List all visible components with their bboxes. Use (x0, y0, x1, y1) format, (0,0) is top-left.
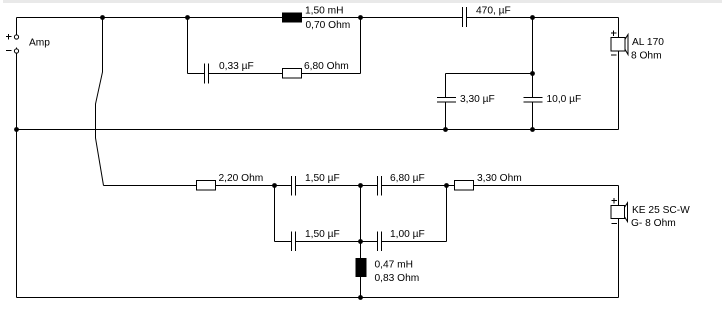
wire: KE25 top lead (618, 186, 620, 206)
capacitor C4 10,0µF plates (524, 97, 543, 99)
wire: between C 1,50 and C 6,80 (296, 185, 378, 187)
svg-text:G- 8 Ohm: G- 8 Ohm (631, 218, 676, 229)
wire: RC branch right riser (x=360) (360, 18, 362, 74)
node bottom branch x=446 (444, 183, 449, 188)
capacitor C3 3,30µF plates (437, 97, 456, 99)
node on top rail x=360 (358, 15, 363, 20)
wire: AL170 top lead (618, 18, 620, 38)
svg-text:6,80 Ohm: 6,80 Ohm (304, 61, 349, 72)
wire: amp plus lead (16, 18, 18, 35)
wire: mid drop node x=360 between branches (360, 186, 362, 242)
svg-text:2,20 Ohm: 2,20 Ohm (219, 173, 264, 184)
wire: L 0,47 bottom lead to bottom rail (360, 277, 362, 298)
wire: L 0,47 top lead (360, 242, 362, 259)
wire: C 10,0 bottom lead (532, 102, 534, 130)
resistor R1 6,80 Ohm body (283, 69, 302, 79)
wire: top rail left of C 470 (17, 17, 463, 19)
speaker SP1 plus sign (611, 31, 617, 37)
node on ground rail x=445 (443, 127, 448, 132)
speaker SP2 plus sign (612, 198, 618, 204)
wire: C 3,30 top lead (445, 74, 447, 98)
svg-text:3,30 Ohm: 3,30 Ohm (477, 173, 522, 184)
capacitor C6 6,80µF plates (377, 176, 379, 196)
svg-text:KE 25 SC-W: KE 25 SC-W (632, 205, 690, 216)
capacitor C1 470µF plates (462, 7, 464, 27)
inductor L2 0,47mH body (356, 258, 367, 277)
wire: C 3,30 bottom lead (445, 102, 447, 130)
wire: AL170 bottom lead to ground rail (618, 51, 620, 130)
wire: lower branch right of C 1,00 (382, 241, 447, 243)
wire: top rail right of C 470 (467, 17, 619, 19)
svg-text:0,70 Ohm: 0,70 Ohm (306, 20, 351, 31)
capacitor C5 1,50µF (upper) plates (291, 176, 293, 196)
wire: C 6,80 to R 3,30 (382, 185, 455, 187)
svg-text:3,30 µF: 3,30 µF (460, 94, 495, 105)
amp minus sign (6, 50, 12, 52)
svg-text:1,50 µF: 1,50 µF (305, 229, 340, 240)
window top edge strip (3, 0, 722, 3)
svg-text:Amp: Amp (29, 38, 50, 49)
wire: lower branch horizontal left of C 1,50 (275, 241, 292, 243)
amp plus sign (6, 34, 12, 40)
capacitor C8 1,00µF plates (377, 232, 379, 252)
node at (532,73.5) (530, 71, 535, 76)
wire: bottom branch feed to R 2,20 (104, 185, 197, 187)
svg-text:1,50 µF: 1,50 µF (305, 173, 340, 184)
resistor R3 3,30 Ohm body (455, 181, 474, 191)
resistor R2 2,20 Ohm body (197, 181, 216, 191)
svg-text:10,0 µF: 10,0 µF (547, 94, 582, 105)
svg-text:0,47 mH: 0,47 mH (375, 260, 414, 271)
wire: ground rail of top section (y=129) (17, 129, 619, 131)
node on top rail x=102 (100, 15, 105, 20)
speaker SP1 AL 170 box (611, 38, 625, 52)
node dots (14, 15, 535, 300)
wire: R 3,30 to speaker corner (474, 185, 619, 187)
wire: amp minus lead down to bottom-left corner (16, 53, 18, 298)
wire: horizontal y=73.5 between C 3,30 and C 10,0 (446, 73, 533, 75)
wire: lower branch between C 1,50 and C 1,00 (296, 241, 378, 243)
wire: RC branch right of R 6,80 (302, 73, 361, 75)
wire: bottom rail (y=297) (17, 297, 619, 299)
wire: drop from node x=532 to C 10,0 (532, 18, 534, 98)
svg-text:1,00 µF: 1,00 µF (390, 229, 425, 240)
node on top rail x=532 (530, 15, 535, 20)
wire: RC branch left drop (x=187) (187, 18, 189, 74)
speaker SP1 minus sign (611, 54, 617, 56)
wire: RC branch horizontal left of C 0,33 (188, 73, 205, 75)
node bottom branch x=274 (272, 183, 277, 188)
svg-text:8 Ohm: 8 Ohm (631, 51, 662, 62)
wire: KE25 bottom lead down to bottom rail (618, 219, 620, 298)
svg-text:AL 170: AL 170 (632, 37, 664, 48)
node lower branch x=360 (358, 239, 363, 244)
amp minus terminal circle (14, 49, 18, 53)
node bottom rail x=360 (358, 295, 363, 300)
wire: curved feed from node (102,17) to bottom section (96, 18, 104, 186)
wire: lower parallel branch left drop (x=274) (274, 186, 276, 242)
capacitor C7 1,50µF (lower) plates (291, 232, 293, 252)
speaker SP2 KE 25 SC-W box (611, 206, 625, 219)
svg-text:0,33 µF: 0,33 µF (219, 61, 254, 72)
node on ground rail x=532 (530, 127, 535, 132)
wire: lower branch right riser (x=446) (446, 186, 448, 242)
wire: amp minus terminal top stub (16, 48, 18, 49)
amp plus terminal circle (14, 35, 18, 39)
wire: R 2,20 to node x=274 (216, 185, 292, 187)
speaker SP2 cone (625, 203, 628, 222)
svg-text:0,83 Ohm: 0,83 Ohm (375, 273, 420, 284)
wire: RC branch between C 0,33 and R 6,80 (209, 73, 283, 75)
svg-text:1,50 mH: 1,50 mH (305, 6, 344, 17)
node bottom branch x=360 (358, 183, 363, 188)
node on top rail x=187 (185, 15, 190, 20)
speaker SP1 cone (625, 35, 628, 55)
node on ground rail x=16 (14, 127, 19, 132)
speaker SP2 minus sign (612, 223, 618, 225)
svg-text:470, µF: 470, µF (476, 6, 511, 17)
inductor L1 1,50mH body (282, 13, 302, 23)
capacitor C2 0,33µF plates (204, 64, 206, 84)
svg-text:6,80 µF: 6,80 µF (390, 173, 425, 184)
